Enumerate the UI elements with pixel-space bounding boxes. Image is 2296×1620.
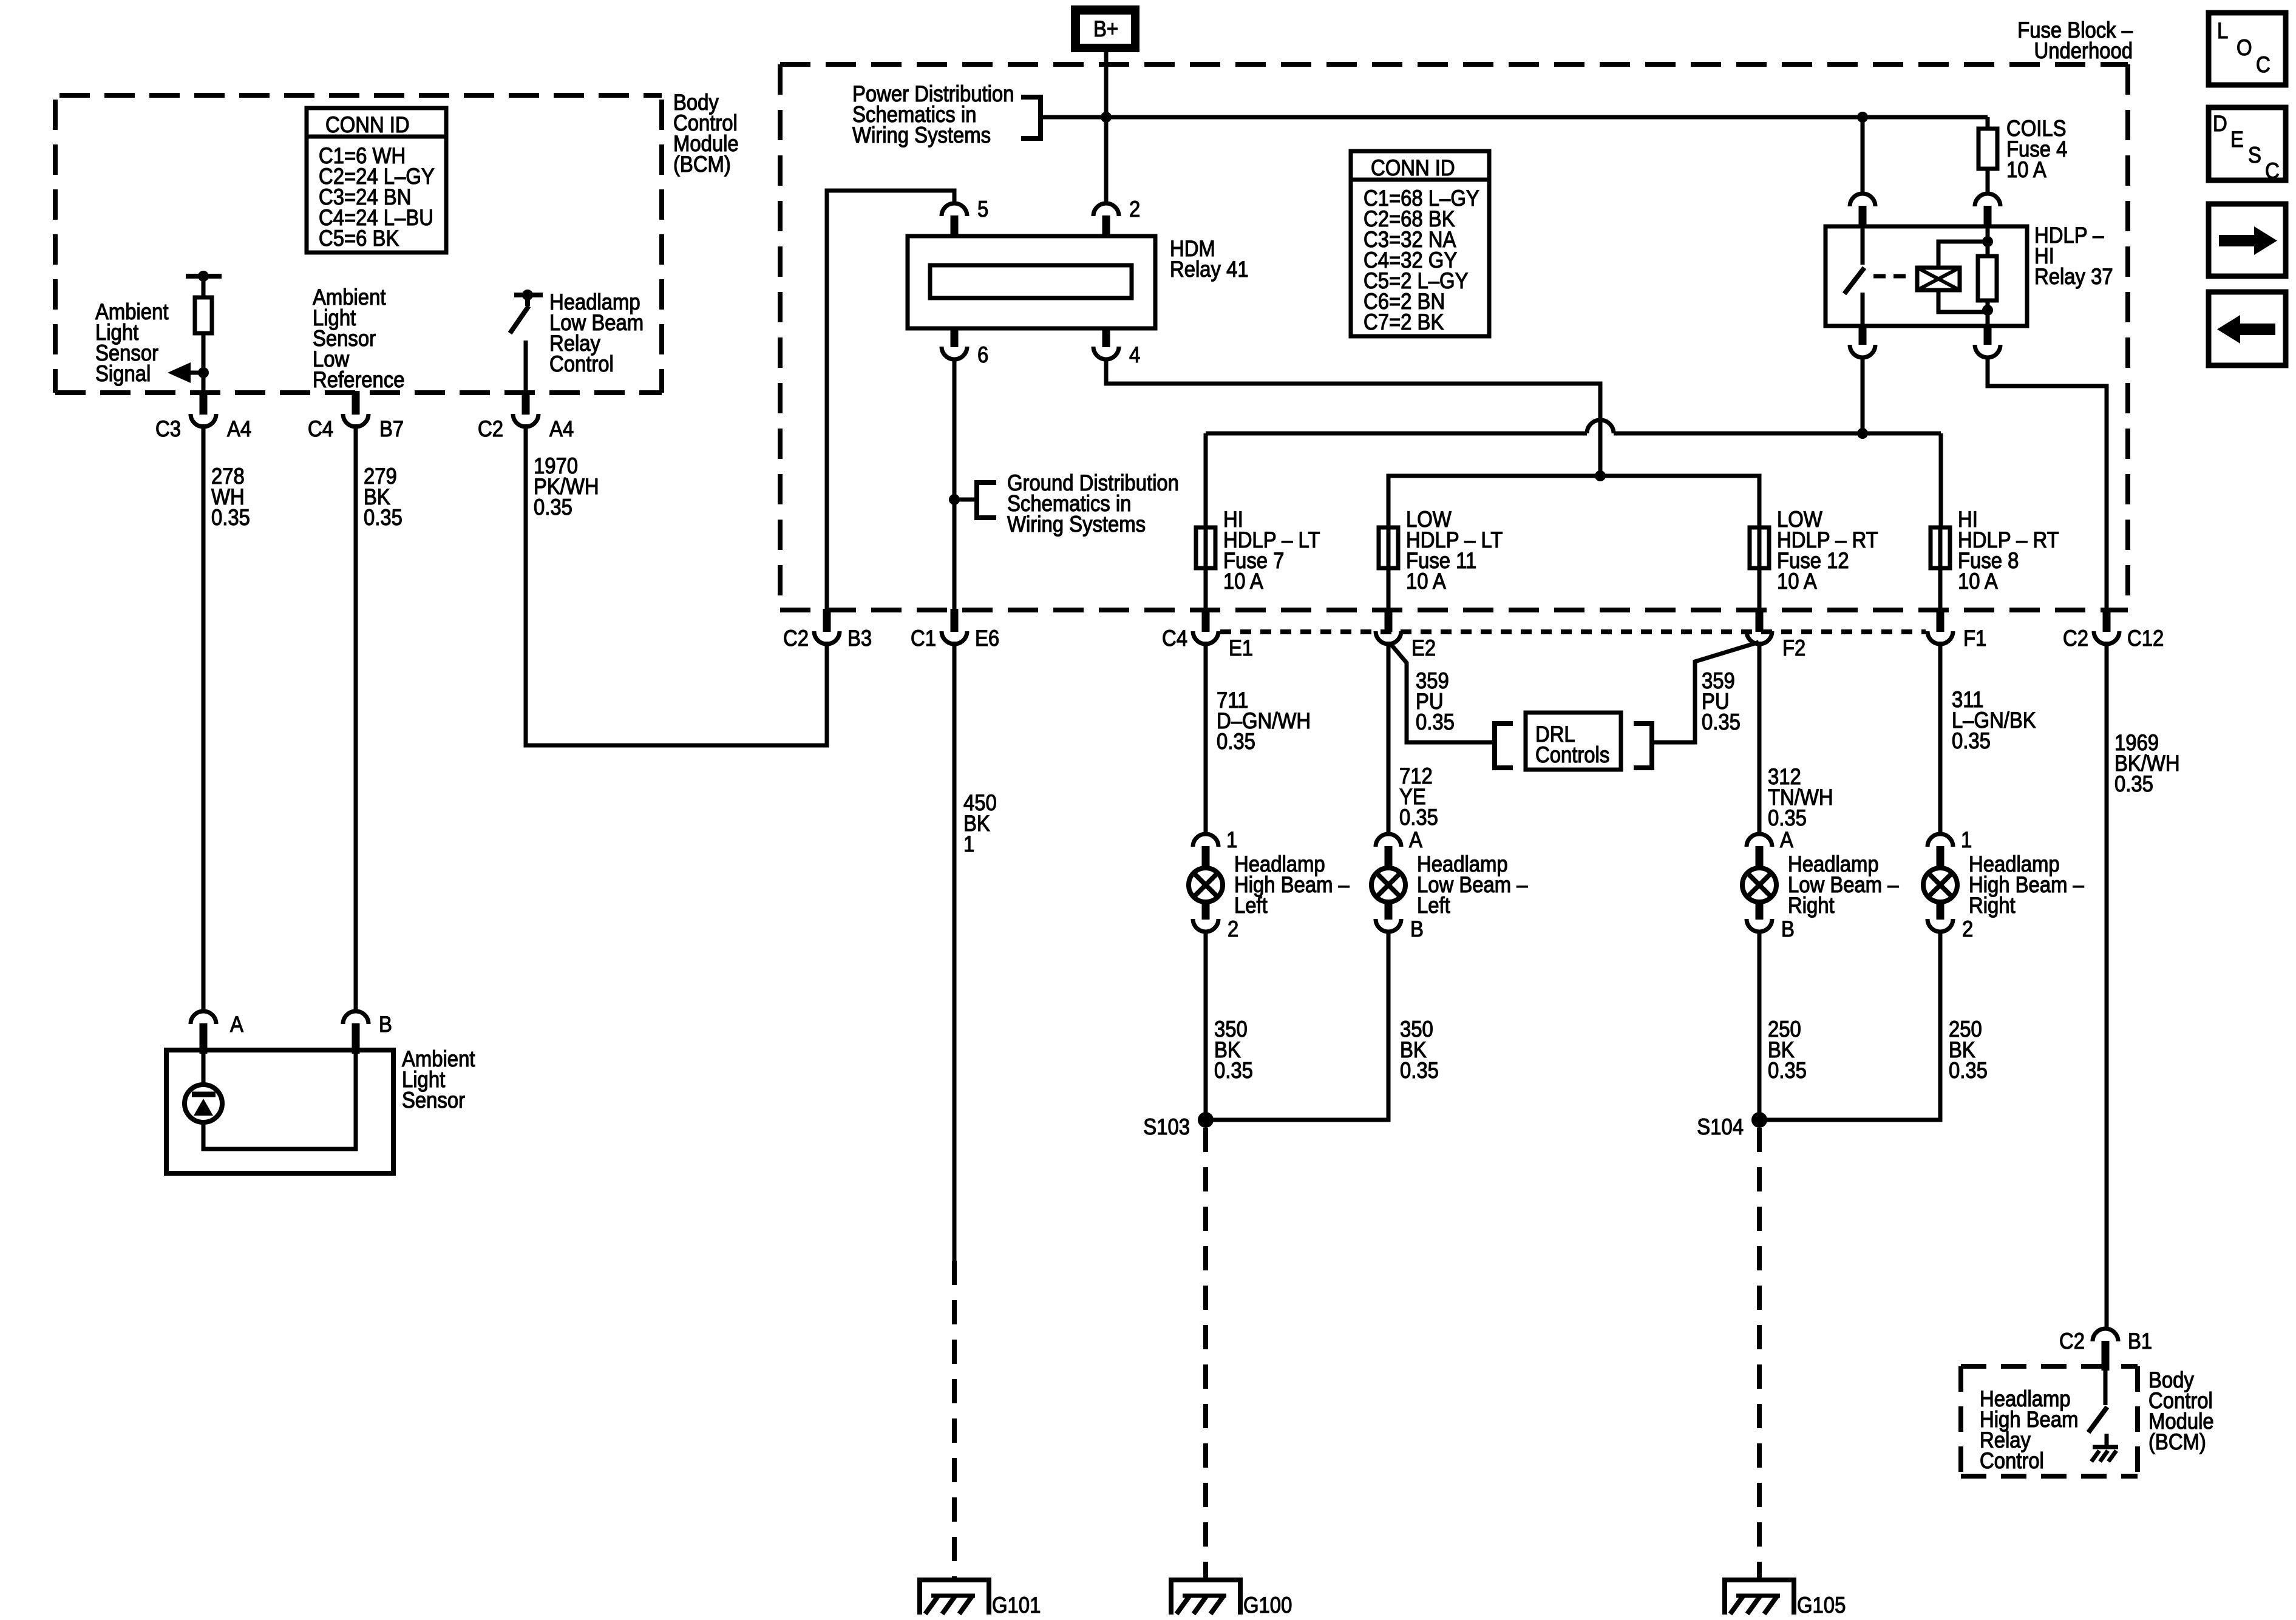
ground G105 bbox=[1725, 1578, 1794, 1582]
connector C2 B1 bbox=[2093, 1329, 2118, 1341]
svg-text:G100: G100 bbox=[1243, 1593, 1292, 1617]
wire 712 YE from E2 bbox=[1387, 642, 1391, 835]
wire fuse7 to E1 bbox=[1204, 568, 1208, 613]
connector F2 bbox=[1756, 609, 1764, 632]
wire pin5 to B3 inside fuse block bbox=[827, 191, 954, 610]
lamp connector pin 2 bbox=[1937, 902, 1944, 920]
headlamp high beam relay control switch bbox=[2104, 1371, 2108, 1405]
svg-text:C: C bbox=[2256, 52, 2271, 77]
svg-text:A: A bbox=[1780, 827, 1794, 852]
button DESC bbox=[2209, 107, 2286, 180]
CONN ID table fuse block bbox=[1351, 151, 1489, 336]
relay 37 pin connector top right bbox=[1975, 194, 2000, 206]
wire coils fuse to relay 37 bbox=[1986, 169, 1990, 195]
wire hop over pin4 drop bbox=[1587, 420, 1614, 433]
wire 250 BK high beam right bbox=[1759, 930, 1940, 1120]
relay 41 pin 4 connector bbox=[1102, 328, 1110, 347]
lamp connector pin B bbox=[1756, 902, 1764, 920]
wire fuse11 to E2 bbox=[1387, 568, 1391, 613]
svg-text:F1: F1 bbox=[1963, 626, 1986, 651]
wire coil to resistor bottom bbox=[1938, 290, 1988, 312]
wire 1969 BK/WH from C12 bbox=[2105, 642, 2109, 1329]
wire 311 L-GN/BK from F1 bbox=[1938, 642, 1943, 835]
wire high-beam fuse feed bbox=[1206, 432, 1587, 436]
svg-text:1: 1 bbox=[1961, 827, 1972, 852]
relay 37 pin connector bottom left bbox=[1859, 326, 1867, 345]
BCM bottom dashed box bbox=[1961, 1366, 2138, 1476]
svg-text:C2: C2 bbox=[478, 416, 503, 441]
svg-text:6: 6 bbox=[977, 342, 988, 367]
relay 41 pin 6 connector bbox=[951, 328, 959, 347]
svg-text:E1: E1 bbox=[1229, 635, 1253, 660]
svg-text:F2: F2 bbox=[1782, 635, 1805, 660]
wire relay37 coil low side to C12 bbox=[1988, 356, 2107, 610]
connector C2 C12 bbox=[2103, 609, 2111, 632]
svg-text:C2: C2 bbox=[2063, 626, 2088, 651]
node feed to relay 37 bbox=[1857, 112, 1868, 123]
relay 41 slide bbox=[930, 265, 1132, 298]
relay 41 pin 2 connector bbox=[1093, 203, 1119, 216]
svg-text:CONN ID: CONN ID bbox=[1371, 155, 1455, 180]
CONN ID table BCM bbox=[307, 108, 446, 252]
relay 37 switch bbox=[1861, 226, 1865, 265]
fuse block underhood dashed box bbox=[780, 64, 2128, 610]
wire B+ down to relay pin 2 bbox=[1104, 52, 1109, 205]
svg-text:O: O bbox=[2237, 35, 2252, 60]
wire feed to coils fuse bbox=[1986, 117, 1990, 129]
wire S104 to G105 bbox=[1757, 1128, 1762, 1578]
wire sensor internal loop bbox=[203, 1054, 356, 1149]
svg-text:E: E bbox=[2230, 127, 2244, 152]
ground distribution bracket bbox=[977, 483, 996, 518]
DRL bracket left bbox=[1495, 724, 1513, 768]
lamp connector pin A bbox=[1747, 834, 1772, 847]
connector C2 B3 bbox=[823, 609, 831, 632]
svg-text:C12: C12 bbox=[2127, 626, 2164, 651]
connector C2 A4 bbox=[522, 391, 530, 415]
connector F1 bbox=[1937, 609, 1944, 632]
wire DRL to F2 359 PU bbox=[1652, 642, 1759, 742]
svg-text:1: 1 bbox=[1226, 827, 1237, 852]
svg-text:Fuse Block –Underhood: Fuse Block –Underhood bbox=[2017, 18, 2133, 63]
button LOC bbox=[2209, 13, 2286, 85]
connector C3 A4 bbox=[200, 391, 208, 415]
svg-text:S: S bbox=[2248, 143, 2261, 168]
headlamp bulb bbox=[1189, 868, 1223, 902]
relay 41 pin 5 connector bbox=[953, 191, 957, 205]
node relay37 switch feed bbox=[1857, 428, 1868, 439]
svg-text:B+: B+ bbox=[1093, 16, 1118, 41]
HDM relay 41 box bbox=[908, 236, 1155, 328]
node ambient light sensor signal tap bbox=[198, 367, 209, 378]
connector C4 E1 bbox=[1202, 609, 1210, 632]
svg-text:C3: C3 bbox=[155, 416, 181, 441]
svg-text:B1: B1 bbox=[2128, 1329, 2152, 1354]
svg-text:B3: B3 bbox=[847, 626, 872, 651]
wire 711 D-GN/WH from E1 bbox=[1204, 642, 1208, 835]
svg-text:B: B bbox=[1781, 917, 1795, 941]
svg-text:C4: C4 bbox=[1162, 626, 1187, 651]
svg-text:C: C bbox=[2265, 158, 2280, 183]
svg-text:A: A bbox=[1409, 827, 1423, 852]
connector E2 bbox=[1385, 609, 1393, 632]
wire low-beam fuse feed bbox=[1388, 476, 1759, 527]
node ground distribution tap bbox=[949, 494, 960, 505]
relay 37 pin connector bottom right bbox=[1984, 326, 1992, 345]
connector A ambient light sensor bbox=[191, 1011, 216, 1024]
wire 350 BK low beam left bbox=[1206, 930, 1388, 1120]
headlamp low beam relay control switch bbox=[514, 293, 543, 297]
svg-text:B: B bbox=[1410, 917, 1424, 941]
fuse LOW HDLP-RT Fuse 12 bbox=[1750, 527, 1769, 568]
harness connector dashed line bbox=[1220, 629, 1926, 634]
svg-text:C1: C1 bbox=[911, 626, 936, 651]
svg-text:2: 2 bbox=[1962, 917, 1973, 941]
wire S103 to G100 bbox=[1203, 1128, 1208, 1578]
wire 278 WH bbox=[202, 424, 206, 1013]
connector B ambient light sensor bbox=[343, 1011, 369, 1024]
lamp connector pin 1 bbox=[1193, 834, 1218, 847]
svg-text:L: L bbox=[2217, 18, 2228, 43]
button back arrow bbox=[2209, 292, 2286, 365]
headlamp bulb bbox=[1923, 868, 1957, 902]
svg-text:B: B bbox=[379, 1012, 392, 1037]
arrow ambient light sensor signal bbox=[190, 371, 205, 375]
button next arrow bbox=[2209, 204, 2286, 276]
splice S104 bbox=[1751, 1112, 1767, 1128]
body control module dashed box bbox=[55, 95, 662, 393]
svg-text:G105: G105 bbox=[1797, 1593, 1846, 1617]
wire 1970 PK/WH bbox=[526, 424, 827, 745]
svg-text:C2: C2 bbox=[2059, 1329, 2085, 1354]
splice S103 bbox=[1198, 1112, 1214, 1128]
svg-text:A4: A4 bbox=[549, 416, 574, 441]
lamp connector pin A bbox=[1376, 834, 1401, 847]
wire relay37 switch output bbox=[1861, 356, 1865, 433]
svg-text:CONN ID: CONN ID bbox=[325, 112, 410, 137]
wire pin4 to low beam fuses bbox=[1106, 358, 1600, 476]
DRL bracket right bbox=[1634, 724, 1652, 768]
svg-text:B7: B7 bbox=[379, 416, 404, 441]
connector C4 B7 bbox=[352, 391, 360, 415]
wire 279 BK bbox=[354, 424, 358, 1012]
relay 37 actuator dashes bbox=[1873, 274, 1914, 279]
resistor ambient light sensor pull-up bbox=[186, 274, 222, 279]
wire 359 PU from E2 to DRL bbox=[1390, 643, 1492, 742]
svg-text:D: D bbox=[2213, 111, 2227, 136]
wire fuse8 to F1 bbox=[1938, 568, 1943, 613]
node pin4 feed bbox=[1595, 470, 1606, 481]
svg-text:E6: E6 bbox=[975, 626, 999, 651]
lamp connector pin 1 bbox=[1927, 834, 1953, 847]
wire fuse12 to F2 bbox=[1758, 568, 1762, 613]
svg-text:S103: S103 bbox=[1143, 1114, 1190, 1139]
svg-text:C4: C4 bbox=[308, 416, 333, 441]
battery feed B+ box bbox=[1071, 5, 1140, 52]
relay 37 coil bbox=[1917, 268, 1960, 290]
fuse LOW HDLP-LT Fuse 11 bbox=[1379, 527, 1398, 568]
lamp connector pin 2 bbox=[1202, 902, 1210, 920]
ground G101 bbox=[920, 1578, 989, 1582]
DRL Controls box bbox=[1526, 713, 1621, 770]
fuse COILS Fuse 4 bbox=[1978, 129, 1997, 169]
wire 250 BK low beam right bbox=[1758, 930, 1762, 1120]
wire coil to resistor top bbox=[1938, 242, 1988, 268]
wire 350 BK high beam left bbox=[1204, 930, 1208, 1120]
fuse HI HDLP-LT Fuse 7 bbox=[1196, 527, 1215, 568]
svg-text:2: 2 bbox=[1129, 197, 1140, 222]
svg-text:C2: C2 bbox=[783, 626, 809, 651]
lamp connector pin B bbox=[1385, 902, 1393, 920]
svg-text:2: 2 bbox=[1228, 917, 1238, 941]
svg-text:A: A bbox=[230, 1012, 244, 1037]
wire 312 TN/WH from F2 bbox=[1758, 642, 1762, 835]
relay 37 pin connector top left bbox=[1861, 117, 1865, 195]
headlamp bulb bbox=[1742, 868, 1776, 902]
relay 37 resistor bbox=[1986, 226, 1990, 256]
HDLP-HI relay 37 box bbox=[1826, 226, 2027, 326]
ground internal BCM bbox=[2093, 1445, 2118, 1449]
wire B+ feed horizontal bbox=[1040, 115, 1988, 120]
connector C1 E6 bbox=[951, 609, 959, 632]
node B+ junction bbox=[1101, 112, 1112, 123]
svg-text:278WH0.35: 278WH0.35 bbox=[211, 464, 250, 530]
svg-text:A4: A4 bbox=[227, 416, 251, 441]
wire 450 BK from E6 bbox=[953, 642, 957, 1261]
svg-text:E2: E2 bbox=[1411, 635, 1436, 660]
headlamp bulb bbox=[1371, 868, 1405, 902]
ambient light sensor box bbox=[166, 1050, 393, 1173]
svg-text:G101: G101 bbox=[992, 1593, 1041, 1617]
svg-text:S104: S104 bbox=[1697, 1114, 1744, 1139]
power distribution bracket bbox=[1021, 97, 1041, 138]
fuse HI HDLP-RT Fuse 8 bbox=[1931, 527, 1950, 568]
svg-text:5: 5 bbox=[977, 197, 988, 222]
ground G100 bbox=[1171, 1578, 1240, 1582]
photodiode bbox=[202, 1054, 206, 1083]
svg-text:4: 4 bbox=[1129, 342, 1140, 367]
